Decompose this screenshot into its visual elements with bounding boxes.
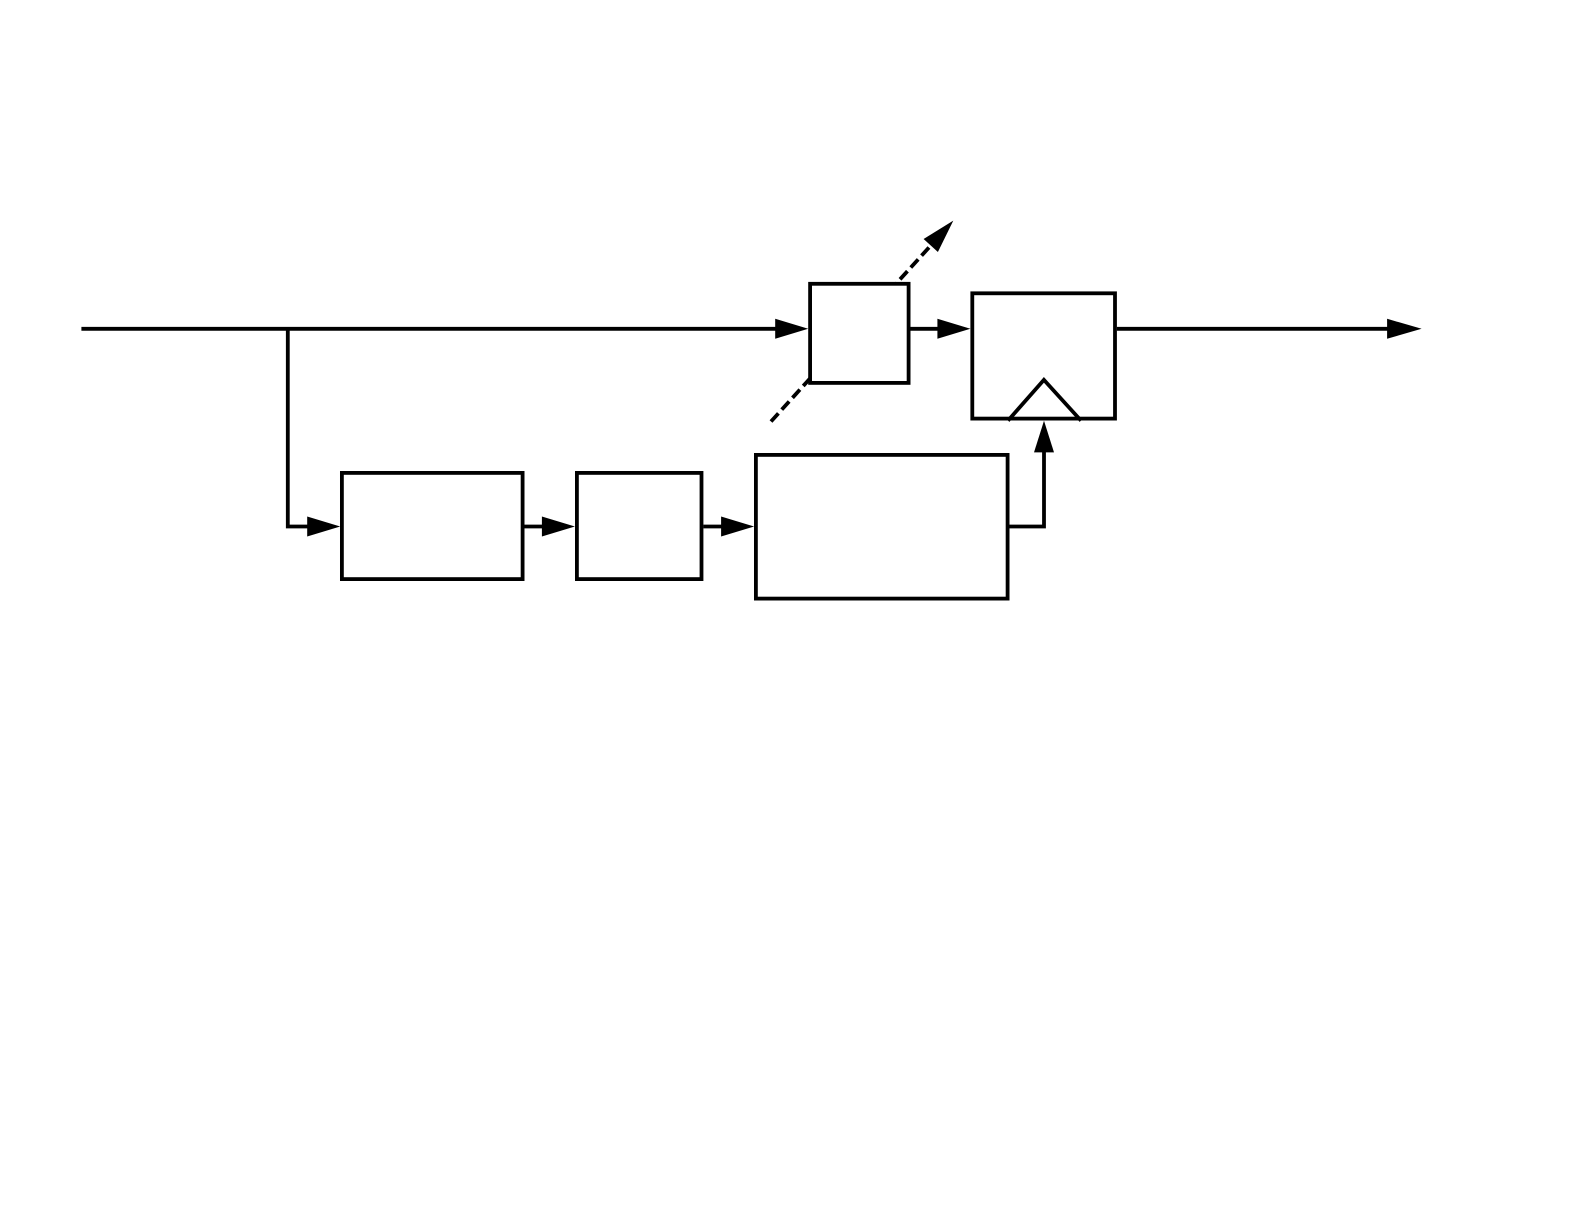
arrow into sampler U1 <box>775 319 808 339</box>
arrow into block A <box>307 517 340 537</box>
wire: output line <box>1117 327 1390 331</box>
latch box U2 <box>972 293 1115 418</box>
block C (VCO) <box>756 455 1008 599</box>
arrow into block C <box>721 517 754 537</box>
arrow into latch U2 <box>937 319 970 339</box>
block B (loop filter) <box>577 473 702 579</box>
arrow: clock into latch <box>1034 421 1054 453</box>
wire: input line <box>81 327 780 331</box>
wire: sampler to latch <box>911 327 941 331</box>
wire: A to B <box>525 525 546 529</box>
clock edge triangle of latch <box>1008 380 1081 421</box>
block A (edge detector) <box>342 473 523 579</box>
wire: C to latch clock <box>1010 450 1045 527</box>
dashed control arrow through sampler (drawn under box) <box>771 221 953 422</box>
node: branch junction <box>288 329 310 527</box>
arrow: output <box>1387 319 1422 339</box>
arrow into block B <box>542 517 575 537</box>
wire: B to C <box>703 525 725 529</box>
sampler box U1 <box>810 284 909 383</box>
